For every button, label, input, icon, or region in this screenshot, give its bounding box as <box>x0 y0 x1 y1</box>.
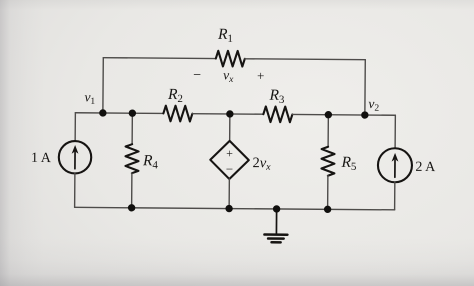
ground bar 1 <box>264 233 287 236</box>
svg-text:1 A: 1 A <box>31 151 52 166</box>
wire left branch lower <box>74 173 76 207</box>
node R4-top dot <box>129 109 136 116</box>
svg-text:R4: R4 <box>142 152 159 171</box>
current source I2 arrow <box>394 160 396 177</box>
wire dependent-source branch upper <box>229 114 231 141</box>
wire right branch lower <box>394 182 396 210</box>
svg-text:2 A: 2 A <box>415 160 436 175</box>
wire R4 branch lower <box>131 173 133 208</box>
current source I1 1A circle <box>59 141 92 174</box>
wire dependent-source branch lower <box>228 179 230 209</box>
wire middle horizontal right (R3 to 2A corner) <box>292 113 395 116</box>
wire middle horizontal center (R2 to R3) <box>192 113 263 116</box>
node v2 dot <box>361 111 368 118</box>
wire R4 branch upper <box>131 113 133 144</box>
node R5-top dot <box>325 111 332 118</box>
wire bottom horizontal <box>75 207 395 210</box>
wire top-left vertical (v1 up to R1 wire) <box>102 58 104 113</box>
svg-text:R5: R5 <box>340 154 357 173</box>
ground stem <box>275 209 277 234</box>
node R4-bottom dot <box>128 204 135 211</box>
ground bar 3 <box>272 241 281 244</box>
wire top-right vertical (down to v2) <box>364 60 366 115</box>
resistor R3 <box>263 106 292 122</box>
wire left branch upper <box>74 113 76 141</box>
svg-text:−: − <box>226 161 233 176</box>
node v1 dot <box>99 109 106 116</box>
svg-text:v1: v1 <box>84 89 95 107</box>
resistor R5 <box>321 147 334 176</box>
svg-text:R3: R3 <box>268 87 285 106</box>
resistor R2 <box>163 106 192 122</box>
current source I1 arrow <box>74 152 76 168</box>
dependent source 2vx diamond <box>210 141 249 180</box>
node source-bottom dot <box>225 205 232 212</box>
wire right branch upper <box>394 115 396 148</box>
resistor R1 <box>216 51 245 67</box>
node ground dot <box>273 205 280 212</box>
node source-top dot <box>226 110 233 117</box>
ground bar 2 <box>268 237 284 240</box>
svg-text:vx: vx <box>223 67 234 85</box>
wire middle horizontal left (corner to R2) <box>75 112 163 115</box>
svg-text:2vx: 2vx <box>252 155 271 173</box>
wire top-right horizontal (R1 to v2 drop) <box>245 58 365 61</box>
wire R5 branch lower <box>327 176 329 210</box>
wire R5 branch upper <box>327 115 329 147</box>
resistor R4 <box>125 144 138 173</box>
wire top-left horizontal (to R1) <box>103 57 215 60</box>
svg-text:+: + <box>226 146 233 160</box>
current source I2 2A circle <box>378 148 412 182</box>
node R5-bottom dot <box>324 206 331 213</box>
svg-text:R2: R2 <box>167 86 183 105</box>
svg-text:+: + <box>257 68 264 83</box>
svg-text:−: − <box>193 68 201 83</box>
svg-text:v2: v2 <box>368 96 379 114</box>
svg-text:R1: R1 <box>217 26 233 45</box>
